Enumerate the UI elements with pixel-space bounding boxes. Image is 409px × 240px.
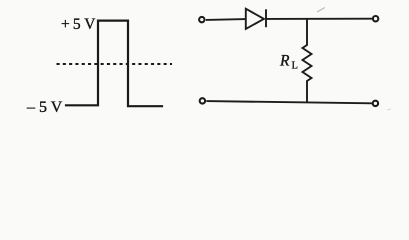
- svg-text:+ 5 V: + 5 V: [61, 16, 96, 33]
- svg-text:– 5 V: – 5 V: [26, 99, 63, 116]
- svg-text:L: L: [292, 61, 298, 72]
- svg-text:R: R: [279, 53, 290, 70]
